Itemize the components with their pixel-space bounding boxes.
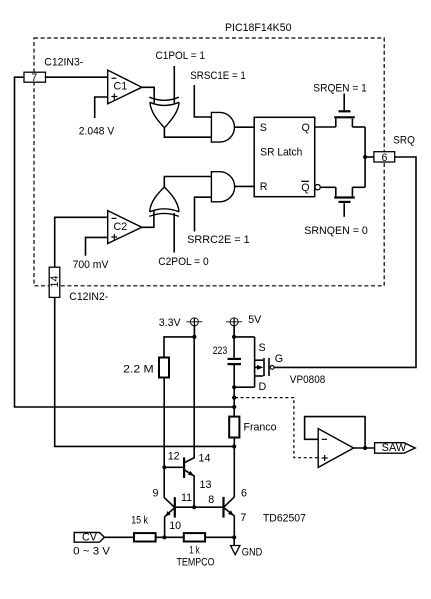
svg-text:GND: GND bbox=[242, 547, 263, 559]
svg-text:11: 11 bbox=[181, 492, 192, 504]
svg-text:223: 223 bbox=[213, 345, 228, 357]
svg-text:Q: Q bbox=[301, 182, 309, 194]
svg-text:13: 13 bbox=[200, 479, 212, 491]
svg-text:R: R bbox=[260, 181, 268, 193]
svg-text:3.3V: 3.3V bbox=[159, 317, 182, 329]
svg-text:14: 14 bbox=[199, 453, 211, 465]
svg-text:SAW: SAW bbox=[382, 442, 407, 454]
svg-text:S: S bbox=[259, 342, 266, 354]
svg-text:VP0808: VP0808 bbox=[290, 374, 326, 386]
svg-text:SRSC1E = 1: SRSC1E = 1 bbox=[190, 70, 246, 82]
svg-text:Q: Q bbox=[302, 122, 310, 134]
svg-text:2.2 M: 2.2 M bbox=[123, 363, 154, 375]
svg-text:C2: C2 bbox=[114, 221, 128, 233]
svg-text:9: 9 bbox=[153, 488, 159, 500]
svg-text:700 mV: 700 mV bbox=[73, 259, 110, 271]
svg-text:10: 10 bbox=[169, 520, 181, 532]
svg-text:6: 6 bbox=[241, 487, 247, 499]
svg-text:C12IN3-: C12IN3- bbox=[44, 57, 83, 69]
svg-text:SRQ: SRQ bbox=[393, 134, 415, 146]
svg-text:TEMPCO: TEMPCO bbox=[177, 557, 215, 569]
svg-text:12: 12 bbox=[168, 450, 180, 462]
svg-text:C12IN2-: C12IN2- bbox=[69, 291, 108, 303]
svg-text:6: 6 bbox=[382, 152, 388, 164]
svg-text:CV: CV bbox=[82, 532, 98, 544]
svg-text:7: 7 bbox=[240, 512, 246, 524]
svg-text:5V: 5V bbox=[248, 314, 262, 326]
svg-text:Franco: Franco bbox=[244, 421, 277, 433]
svg-text:2.048 V: 2.048 V bbox=[79, 125, 115, 137]
svg-text:TD62507: TD62507 bbox=[263, 512, 306, 524]
svg-text:SRRC2E = 1: SRRC2E = 1 bbox=[187, 234, 250, 246]
svg-text:SRQEN = 1: SRQEN = 1 bbox=[313, 82, 367, 94]
svg-text:C2POL = 0: C2POL = 0 bbox=[158, 256, 209, 268]
svg-text:SR Latch: SR Latch bbox=[260, 146, 302, 158]
svg-text:8: 8 bbox=[208, 494, 214, 506]
svg-text:7: 7 bbox=[31, 72, 37, 84]
svg-text:0 ~ 3 V: 0 ~ 3 V bbox=[73, 546, 111, 558]
svg-text:1 k: 1 k bbox=[189, 544, 200, 556]
svg-text:C1: C1 bbox=[114, 81, 128, 93]
svg-text:G: G bbox=[275, 353, 283, 365]
svg-text:D: D bbox=[259, 381, 267, 393]
svg-text:S: S bbox=[260, 122, 267, 134]
svg-text:PIC18F14K50: PIC18F14K50 bbox=[225, 22, 292, 34]
svg-text:C1POL = 1: C1POL = 1 bbox=[156, 50, 206, 62]
svg-text:SRNQEN = 0: SRNQEN = 0 bbox=[304, 225, 368, 237]
svg-text:14: 14 bbox=[49, 276, 61, 288]
svg-text:15 k: 15 k bbox=[131, 514, 148, 526]
